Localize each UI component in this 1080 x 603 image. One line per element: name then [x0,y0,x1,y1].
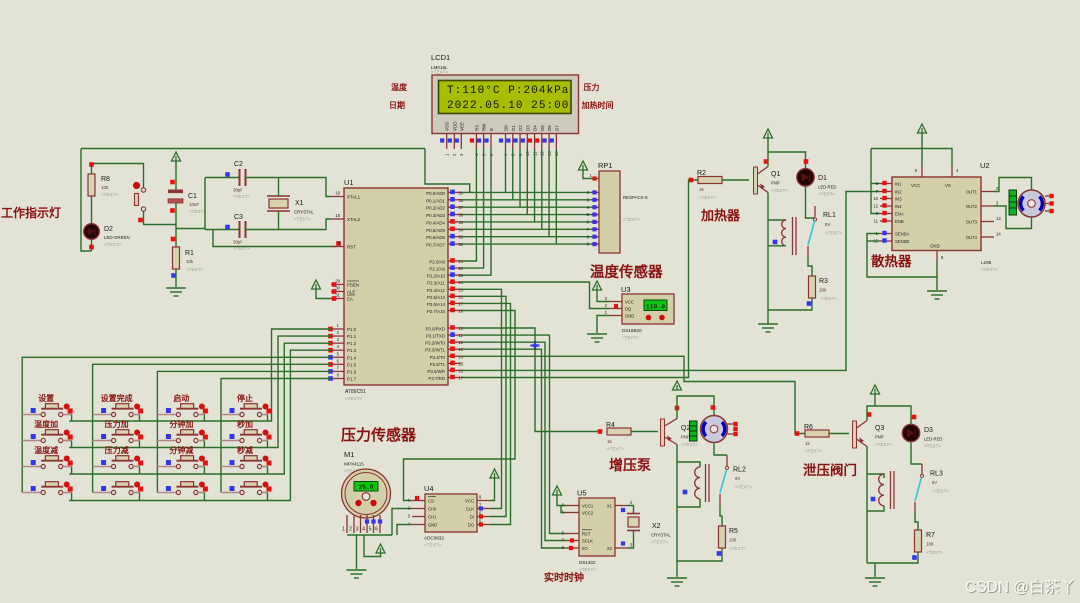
svg-text:U3: U3 [621,285,631,294]
wire P0.0 row to RP1 [461,191,599,193]
wire P2.6 to U4 DO [461,303,511,524]
RP1 pin 4 [591,206,599,208]
U1 pin 27 P2.6/A14 [448,302,461,304]
wire U3 GND [597,316,609,334]
wire SENSA SENSB to ground [867,234,937,278]
svg-text:CLK: CLK [466,507,474,512]
U2 pin 15 SENSB [880,240,892,242]
wire U5 VCC1 [557,495,566,506]
wire P1.7 to key column 4 [221,378,331,492]
U1 pin 38 P0.1/AD1 [448,199,461,201]
U2 pin 14 OUT4 [981,236,994,238]
wire P0.7 row to RP1 [461,243,599,245]
svg-text:分钟加: 分钟加 [169,419,193,429]
wire button drop [203,467,205,475]
junction R3 bottom [807,301,812,306]
wire M1 to U4 CH0 [392,509,412,536]
U2 pin 1 SENSA [880,233,892,235]
U4 pin 3 CH1 [412,516,425,518]
svg-text:P1.7: P1.7 [347,376,357,381]
wire button drop [139,441,141,448]
svg-text:C2: C2 [234,161,243,168]
capacitor C1 [168,190,183,194]
push button row4 col1 [22,482,71,495]
svg-text:<TEXT>: <TEXT> [623,217,640,222]
wire R8 to D2 [91,196,93,224]
svg-text:P2.0/A8: P2.0/A8 [429,260,445,265]
wire RP1 pin1 VCC [583,170,599,179]
driver U2 L298 [892,177,981,251]
U2 pin 7 IN2 [880,191,892,193]
resistor R2 [698,177,722,184]
svg-text:P2.3/A11: P2.3/A11 [427,281,445,286]
wire OUT1 to fan motor [994,178,1032,192]
wire contact to R7 [915,512,918,530]
wire P0.1 row to RP1 [461,199,599,201]
resistor R8 [88,174,95,196]
svg-text:SCLK: SCLK [582,539,593,544]
svg-text:秒加: 秒加 [237,419,253,429]
svg-text:<TEXT>: <TEXT> [607,447,624,452]
svg-text:LED-GREEN: LED-GREEN [104,235,130,240]
M1 pin 4 [366,515,368,533]
junction R1 top [171,237,176,242]
wire rail to P0.0 node [425,149,470,193]
svg-text:XTAL1: XTAL1 [347,195,361,200]
svg-text:增压泵: 增压泵 [609,457,651,473]
M1 pin 2 [353,515,355,533]
U1 pin 18 XTAL2 [331,218,344,220]
wire button drop [267,493,269,501]
LED D1 [797,169,814,186]
U1 pin 26 P2.5/A13 [448,295,461,297]
wire LCD D0 vertical [505,149,507,192]
wire D1 to contact [806,186,816,218]
ground M1 [347,570,367,578]
svg-text:启动: 启动 [173,393,189,403]
U1 pin 33 P0.6/AD6 [448,236,461,238]
svg-text:VS: VS [945,183,951,188]
U1 pin 19 XTAL1 [331,196,344,198]
svg-text:D5: D5 [540,125,545,131]
wire node to cap rail [176,228,205,230]
wire X1 bottom [278,211,280,230]
wire P2.7 to U4 CS [404,310,516,500]
U1 pin 1 P1.0 [331,328,344,330]
wire motor to contact [714,443,727,456]
svg-text:LED-RED: LED-RED [924,437,942,442]
svg-text:P2.2/A10: P2.2/A10 [427,274,446,279]
RTC U5 DS1302 [579,498,615,556]
svg-text:R7: R7 [926,532,935,539]
wire P3.7 to R2 [461,180,698,377]
junction R4 left [598,429,603,434]
svg-text:RST: RST [582,532,591,537]
svg-text:PNP: PNP [771,181,780,186]
U1 pin 35 P0.4/AD4 [448,221,461,223]
svg-text:CRYSTAL: CRYSTAL [294,210,314,215]
LED D2 [84,224,100,240]
svg-text:R1: R1 [185,250,194,257]
power terminal M1 [376,544,385,553]
U1 pin 4 P1.3 [331,349,344,351]
relay RL1 coil [782,220,786,246]
U1 pin 11 P3.1/TXD [448,334,461,336]
U5 pin 5 RST [566,533,579,535]
svg-text:<TEXT>: <TEXT> [981,267,998,272]
ground Q1 [758,324,778,332]
svg-text:<TEXT>: <TEXT> [424,543,441,548]
wire to RL1 coil top [768,219,786,221]
wire OUT2 to fan motor [994,206,1032,229]
svg-text:D1: D1 [818,175,827,182]
svg-text:DQ: DQ [625,307,632,312]
wire key row 1 to P1.0 [69,329,331,421]
U2 pin 10 IN3 [880,198,892,200]
svg-text:1k: 1k [699,187,704,192]
svg-text:<TEXT>: <TEXT> [932,489,949,494]
junction RL3 [871,497,876,502]
wire LCD D5 vertical [541,149,543,229]
crystal X1 [267,195,290,197]
wire P1.5 to key column 2 [93,364,331,492]
power terminal U3 [593,281,602,290]
wire button drop [139,467,141,475]
wire button drop [267,415,269,422]
svg-text:100: 100 [819,288,827,293]
svg-text:加热时间: 加热时间 [581,100,614,110]
svg-text:P3.6/WR: P3.6/WR [427,369,445,374]
U1 pin 6 P1.5 [331,363,344,365]
svg-text:SENSB: SENSB [895,239,909,244]
svg-text:I/O: I/O [582,546,588,551]
svg-text:VEE: VEE [459,122,464,131]
wire P3.6 to U2 IN2 [461,192,880,371]
wire ground stem Q3 [874,563,876,577]
svg-text:RW: RW [482,123,487,131]
wire M1 VCC branch [364,535,381,557]
wire P3.1 to U5 RST [461,335,566,533]
wire button drop [71,441,73,448]
push button 温度加 [22,430,71,443]
svg-text:VCC2: VCC2 [582,511,594,516]
U1 pin 32 P0.7/AD7 [448,243,461,245]
wire LCD RW to P2.1 [461,149,484,268]
svg-text:2: 2 [349,527,352,533]
junction R8 top [89,162,94,167]
svg-text:压力: 压力 [584,82,600,92]
wire IN1 tie [871,183,880,185]
U1 pin 15 P3.5/T1 [448,362,461,364]
svg-text:PNP: PNP [681,435,690,440]
svg-text:压力减: 压力减 [105,445,129,455]
svg-text:RL3: RL3 [930,471,943,478]
svg-text:GND: GND [930,244,940,249]
wire C2 to XTAL1 [246,178,331,197]
svg-text:D1: D1 [511,125,516,131]
U1 pin 37 P0.2/AD2 [448,206,461,208]
svg-text:散热器: 散热器 [871,253,912,269]
wire P2.5 to U4 DI [461,296,506,516]
wire C3 left [205,229,239,231]
wire D2 bottom [91,240,93,252]
svg-text:R3: R3 [819,278,828,285]
power terminal EA [312,280,321,289]
svg-text:VCC: VCC [465,499,474,504]
push button row4 col2 [93,482,141,495]
U4 pin 4 GND [412,524,425,526]
svg-text:X1: X1 [607,504,613,509]
wire button drop [267,467,269,475]
junction D3 top [912,415,917,420]
U3 pin 1 GND [609,315,622,317]
svg-text:<TEXT>: <TEXT> [818,192,835,197]
U4 pin 1 CS [412,500,425,502]
relay RL3 coil [879,474,884,506]
capacitor C3 [239,221,241,238]
U5 pin 6 I/O [566,547,579,549]
svg-text:P0.3/AD3: P0.3/AD3 [426,213,445,218]
wire RL3 coil bottom [867,506,884,511]
wire RL2 coil bottom [677,499,700,507]
svg-text:RL1: RL1 [823,212,836,219]
RP1 pin 6 [591,221,599,223]
U2 pin 9 VCC [921,167,923,178]
U5 pin 8 VCC1 [566,505,579,507]
svg-text:加热器: 加热器 [700,208,741,223]
wire C1 to R1 [175,203,177,247]
svg-text:P1.6: P1.6 [347,369,357,374]
push button 分钟加 [157,430,205,443]
wire Q2 collector to motor [677,396,714,419]
svg-text:R4: R4 [606,422,615,429]
svg-text:30pf: 30pf [233,188,242,193]
svg-text:P1.2: P1.2 [347,341,357,346]
svg-text:1k: 1k [607,439,612,444]
wire P2.4 to U4 CLK [461,289,502,508]
wire U3 DQ to P2.3 [461,282,609,309]
U1 pin 25 P2.4/A12 [448,288,461,290]
svg-text:压力传感器: 压力传感器 [341,426,417,444]
svg-text:<TEXT>: <TEXT> [926,550,943,555]
svg-text:13: 13 [996,216,1001,221]
svg-text:100: 100 [926,542,934,547]
wire contact to R3 [808,257,812,276]
wire C2 left [205,177,239,179]
junction C3 left [225,225,230,230]
resistor R4 [607,428,631,435]
push button 压力加 [93,430,141,443]
svg-text:3: 3 [356,527,359,533]
svg-text:T:110°C P:204kPa: T:110°C P:204kPa [447,85,569,97]
resistor R5 [719,526,726,548]
U1 pin 23 P2.2/A10 [448,274,461,276]
svg-text:D3: D3 [924,427,933,434]
svg-text:19: 19 [335,191,340,196]
svg-text:<TEXT>: <TEXT> [699,195,716,200]
svg-text:CH1: CH1 [428,515,437,520]
svg-text:<TEXT>: <TEXT> [771,188,788,193]
svg-text:P1.3: P1.3 [347,348,357,353]
svg-text:P3.4/T0: P3.4/T0 [430,355,446,360]
power terminal RP1 [579,161,588,170]
U1 pin 31 EA [331,298,344,300]
svg-text:RST: RST [347,245,356,250]
power terminal Q1 [764,129,773,138]
svg-text:D4: D4 [533,125,538,131]
push button 设置完成 [93,404,141,417]
svg-text:LED-RED: LED-RED [818,185,836,190]
svg-text:温度: 温度 [391,82,408,92]
transistor Q3 PNP [853,421,857,448]
U1 pin 24 P2.3/A11 [448,281,461,283]
power terminal Q2 [673,381,682,390]
junction marker [531,341,540,350]
RP1 pin 5 [591,214,599,216]
junction C1 bottom [170,208,175,213]
wire LCD D6 vertical [548,149,550,237]
RP1 pin 8 [591,236,599,238]
wire power stem Q1 [767,138,769,152]
wire LCD E to P2.2 [461,149,491,275]
svg-text:XTAL2: XTAL2 [347,217,361,222]
svg-text:OUT3: OUT3 [966,220,978,225]
wire SENSB [867,240,880,242]
svg-text:温度传感器: 温度传感器 [590,263,663,281]
svg-text:P2.1/A9: P2.1/A9 [429,267,445,272]
svg-text:E: E [489,128,494,131]
svg-text:SENSA: SENSA [895,232,909,237]
svg-text:4: 4 [362,527,365,533]
svg-text:R8: R8 [101,176,110,183]
LED D3 [902,424,919,441]
svg-text:30pf: 30pf [233,240,242,245]
LCD LCD1 LM016L [432,75,579,134]
svg-text:C3: C3 [234,214,243,221]
temperature sensor U3 DS18B20 [622,294,674,324]
RP1 pin 9 [591,243,599,245]
U5 pin 2 X1 [615,505,628,507]
svg-text:PNP: PNP [875,435,884,440]
svg-text:温度减: 温度减 [34,445,58,455]
push button 分钟减 [157,456,205,469]
svg-text:<TEXT>: <TEXT> [820,296,837,301]
svg-text:P1.5: P1.5 [347,362,357,367]
wire cap rail [204,178,206,230]
svg-text:L298: L298 [981,260,992,265]
RP1 pin 3 [591,199,599,201]
U1 pin 7 P1.6 [331,370,344,372]
ground U2 [927,291,947,299]
svg-text:设置: 设置 [38,393,54,403]
svg-text:压力加: 压力加 [105,419,129,429]
wire LCD RS to P2.0 [461,149,476,261]
svg-text:MPX4115: MPX4115 [344,462,364,467]
power terminal U2 [918,124,927,133]
svg-text:P2.7/A15: P2.7/A15 [427,309,446,314]
svg-text:实时时钟: 实时时钟 [544,571,584,584]
svg-text:D6: D6 [547,125,552,131]
svg-text:<TEXT>: <TEXT> [233,246,250,251]
svg-text:P2.5/A13: P2.5/A13 [427,295,446,300]
wire U2 left rail [871,149,880,214]
U1 pin 2 P1.1 [331,335,344,337]
svg-text:VCC1: VCC1 [582,504,594,509]
resistor R7 [915,530,922,552]
svg-text:<TEXT>: <TEXT> [825,231,842,236]
svg-text:<TEXT>: <TEXT> [805,449,822,454]
svg-text:ENB: ENB [895,219,904,224]
svg-text:工作指示灯: 工作指示灯 [1,205,61,220]
svg-text:P0.6/AD6: P0.6/AD6 [426,235,445,240]
U5 pin 1 VCC2 [566,512,579,514]
svg-text:P1.4: P1.4 [347,355,357,360]
svg-text:5: 5 [369,527,372,533]
svg-text:P0.7/AD7: P0.7/AD7 [426,243,445,248]
svg-text:<TEXT>: <TEXT> [622,335,639,340]
M1 pin 3 [360,515,362,533]
svg-text:D3: D3 [525,125,530,131]
wire button drop [71,467,73,475]
svg-text:VDD: VDD [452,121,457,131]
junction R1 bottom [171,273,176,278]
indicator U2 fan [1009,190,1017,215]
motor 散热器 fan [1018,190,1045,217]
motor 增压泵 M [701,416,728,443]
svg-text:<TEXT>: <TEXT> [189,209,206,214]
wire P3.4 to R6 [461,356,805,433]
svg-text:U2: U2 [980,161,990,170]
svg-text:U5: U5 [577,489,587,498]
wire P0.3 row to RP1 [461,214,599,216]
relay RL3 contact [921,464,923,474]
wire button drop [71,493,73,501]
svg-text:P3.0/RXD: P3.0/RXD [425,327,445,332]
wire Q1 emitter down [767,193,769,311]
U1 pin 39 P0.0/AD0 [448,191,461,193]
wire Q2 emitter down [676,445,678,562]
svg-text:<TEXT>: <TEXT> [233,194,250,199]
svg-text:U1: U1 [344,178,354,187]
svg-text:OUT1: OUT1 [966,190,978,195]
svg-text:<TEXT>: <TEXT> [294,217,311,222]
svg-text:<TEXT>: <TEXT> [729,546,746,551]
svg-text:PSEN: PSEN [347,283,359,288]
svg-text:100: 100 [101,185,109,190]
wire button drop [71,415,73,422]
svg-text:<TEXT>: <TEXT> [431,70,448,75]
wire U4 VCC [490,478,495,501]
svg-text:<TEXT>: <TEXT> [735,485,752,490]
svg-text:P3.1/TXD: P3.1/TXD [426,334,445,339]
wire U3 VCC [597,290,609,302]
U4 pin 6 DI [477,516,490,518]
U3 pin 3 VCC [609,301,622,303]
wire P0.2 row to RP1 [461,206,599,208]
wire X2 to U5 [628,531,634,549]
U1 pin 14 P3.4/T0 [448,355,461,357]
wire LCD D3 vertical [526,149,528,215]
junction RL2 [683,490,688,495]
power terminal U4 [490,469,499,478]
wire Q1 collector to D1 [768,152,806,169]
wire node to RST [213,229,336,247]
wire P0.6 row to RP1 [461,236,599,238]
wire RL1 coil bottom [768,245,786,247]
svg-text:100: 100 [729,538,737,543]
junction R2 left [689,178,694,183]
wire VCC rail top [81,148,425,150]
